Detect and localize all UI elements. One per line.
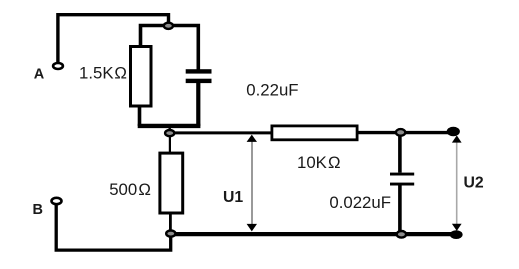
capacitor C2 top lead [398, 135, 402, 173]
node J5 [397, 231, 406, 238]
node J3 [166, 231, 175, 237]
capacitor C1 bottom plate [186, 79, 212, 83]
svg-text:U1: U1 [223, 189, 243, 206]
arrow U2 head down [452, 224, 462, 231]
wire parallel-combo top [141, 26, 199, 70]
wire C1 bottom lead [196, 83, 200, 127]
svg-text:0.022uF: 0.022uF [329, 193, 391, 212]
node J2 [165, 130, 174, 136]
wire A terminal to node J1 [58, 15, 169, 62]
wire middle rail left [175, 131, 273, 134]
wire middle rail right [359, 131, 451, 134]
wire B loop [56, 205, 171, 250]
capacitor C2 bottom plate [390, 183, 414, 186]
wire bottom rail [173, 232, 452, 236]
svg-text:A: A [34, 66, 45, 82]
resistor R3 [272, 126, 357, 140]
svg-text:0.22uF: 0.22uF [246, 80, 298, 99]
svg-text:1.5K: 1.5K [79, 63, 114, 82]
terminal T2 bottom right [450, 230, 463, 239]
node J4 [396, 129, 405, 136]
terminal A [53, 63, 63, 69]
wire R2 to node J3 [169, 214, 172, 232]
svg-text:U2: U2 [464, 174, 484, 191]
arrow U2 line [456, 140, 458, 226]
svg-text:10K: 10K [297, 153, 327, 172]
node J1 [164, 23, 173, 29]
svg-text:B: B [33, 202, 43, 218]
arrow U1 line [251, 141, 253, 225]
capacitor C1 top plate [186, 69, 212, 73]
arrow U1 head down [247, 224, 257, 232]
arrow U1 head up [247, 135, 257, 142]
arrow U2 head up [452, 135, 462, 142]
wire R1 bottom lead [138, 106, 142, 126]
svg-text:Ω: Ω [114, 63, 127, 82]
terminal T1 top right [447, 127, 460, 136]
capacitor C2 top plate [390, 173, 414, 176]
svg-text:Ω: Ω [328, 153, 341, 172]
wire parallel-combo bottom [138, 124, 201, 128]
svg-text:Ω: Ω [138, 180, 151, 199]
resistor R2 [160, 153, 183, 213]
terminal B [52, 198, 62, 204]
capacitor C2 bottom lead [398, 186, 402, 233]
svg-text:500: 500 [109, 180, 137, 199]
resistor R1 [131, 47, 152, 107]
wire J2 to R2 [169, 136, 171, 154]
wire stub to node J2 [168, 127, 170, 131]
